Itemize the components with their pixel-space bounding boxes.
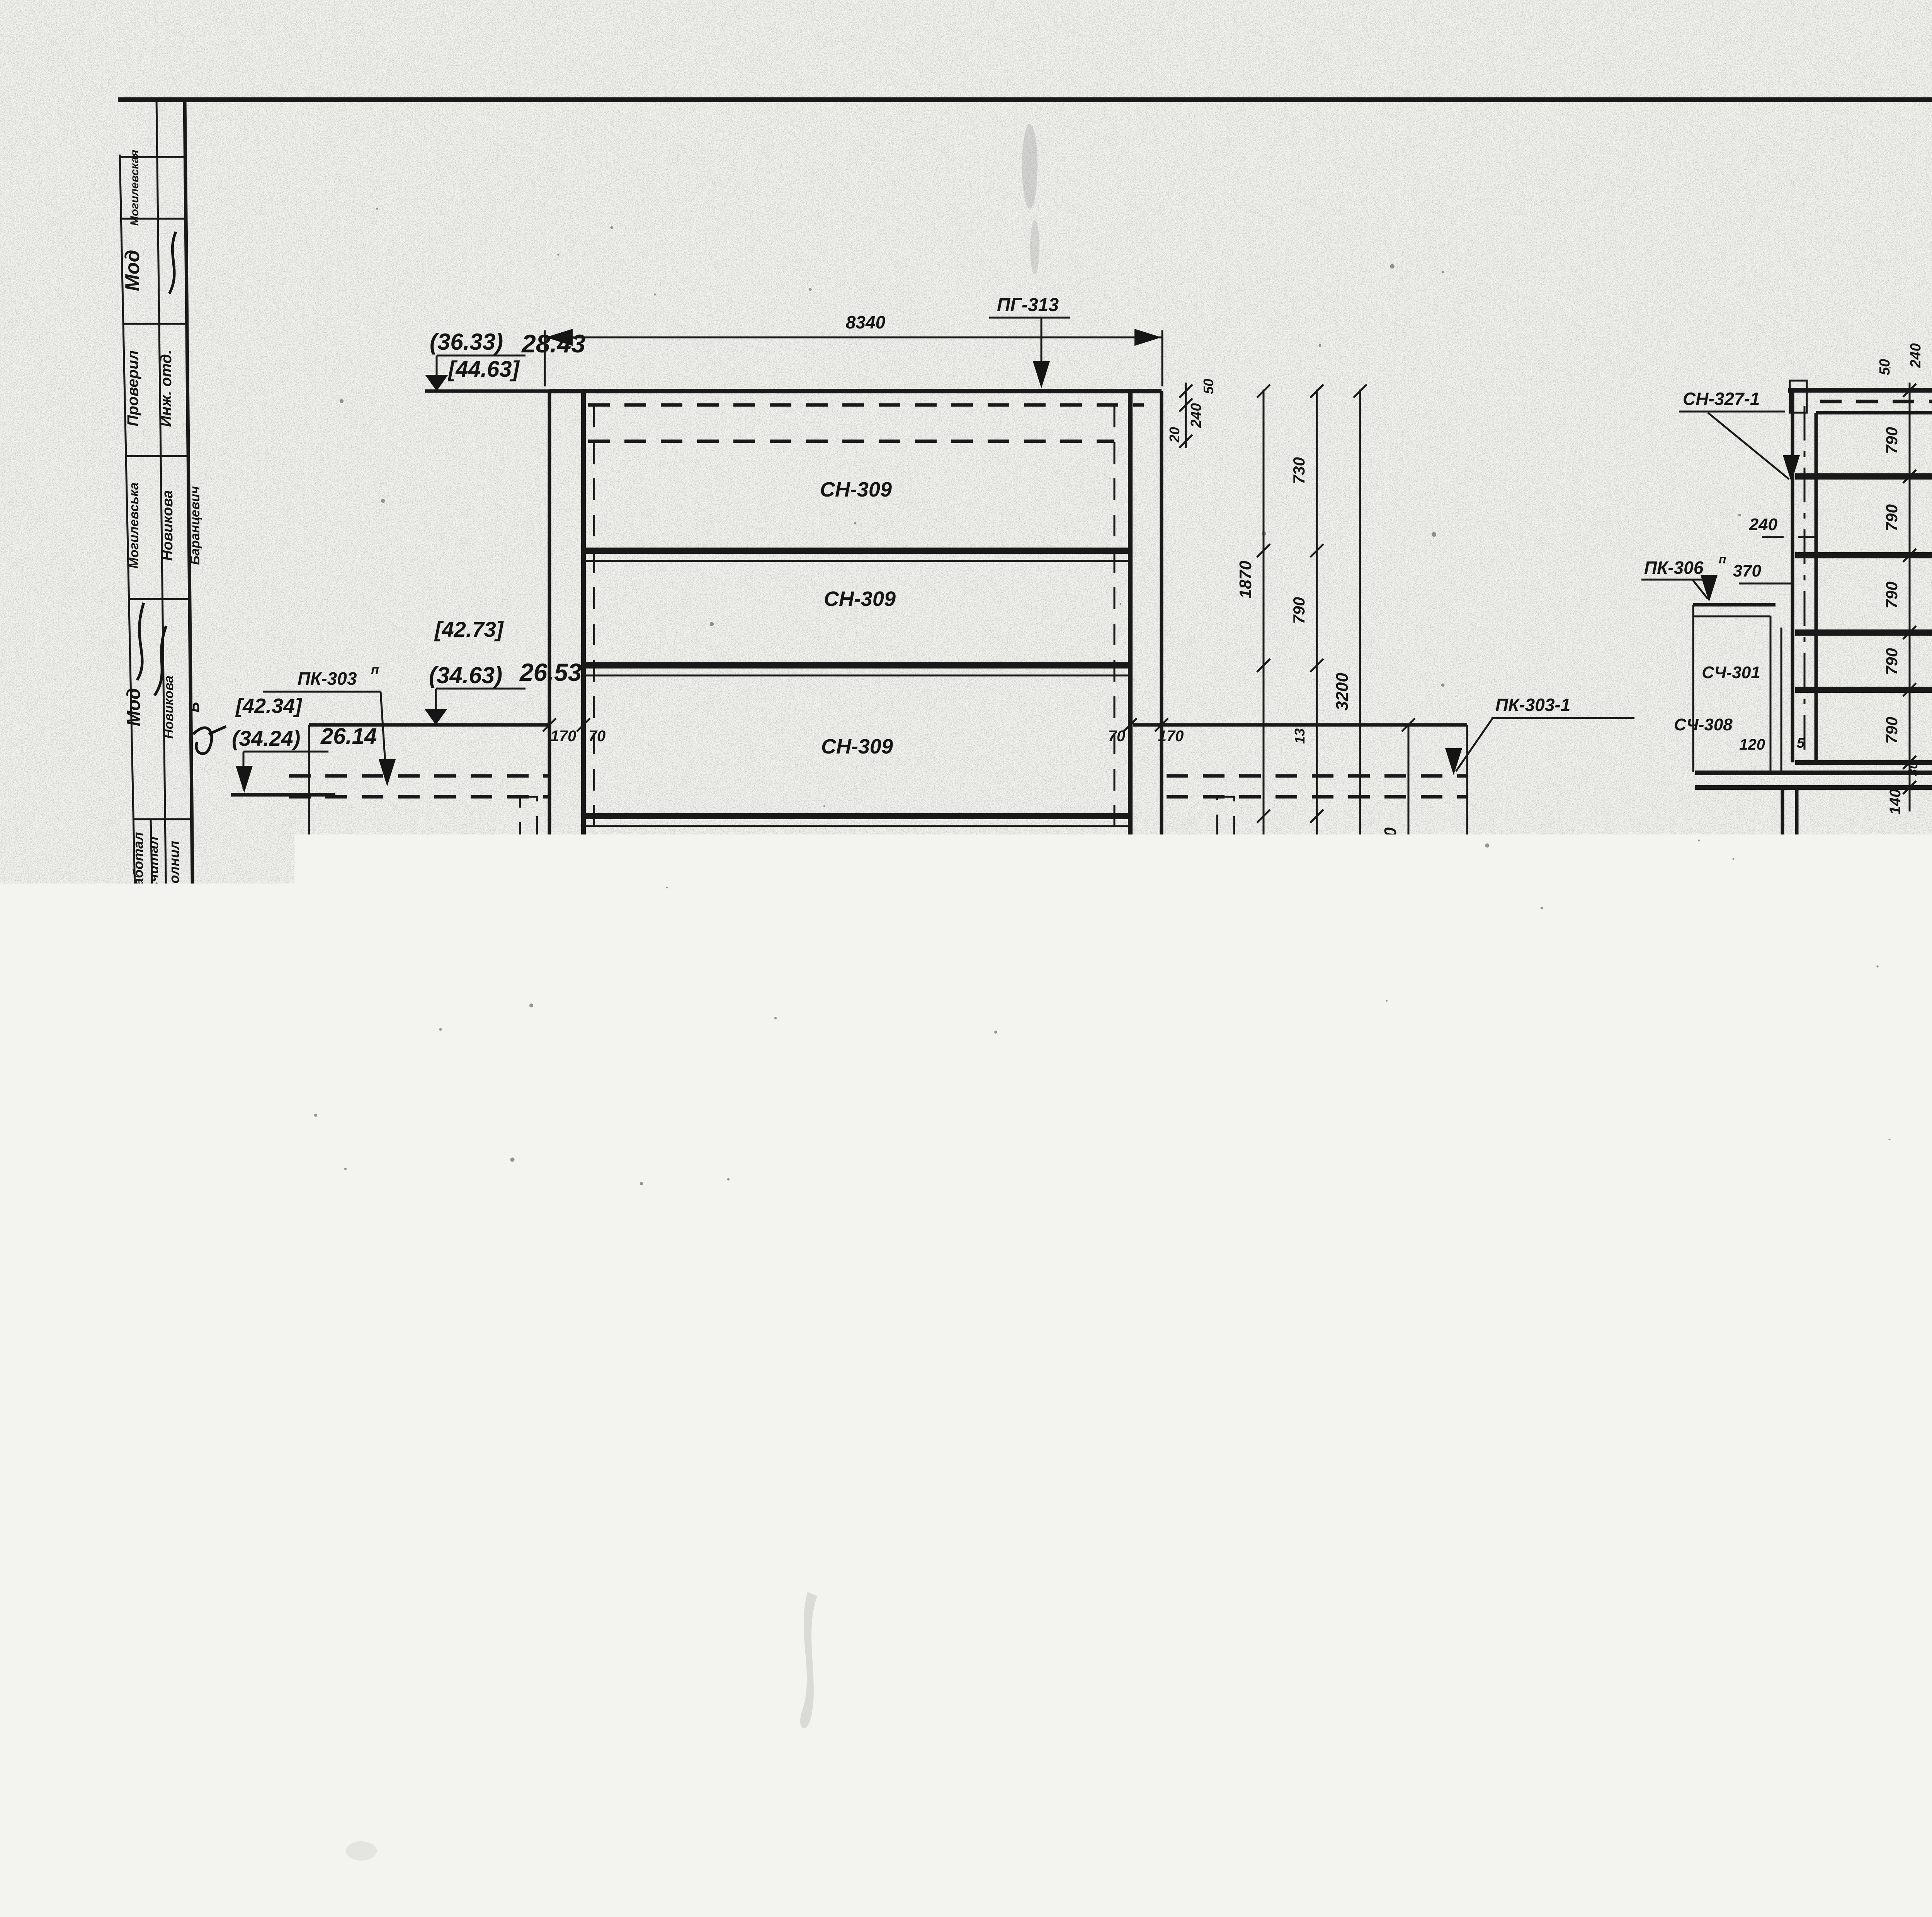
svg-text:(36.33): (36.33) — [430, 329, 503, 355]
svg-text:Разработал: Разработал — [130, 832, 146, 919]
6-6 lower room floor — [572, 1313, 1148, 1345]
svg-text:сн-302: сн-302 — [849, 1255, 917, 1280]
svg-text:СЧ-301: СЧ-301 — [1219, 844, 1281, 864]
svg-text:СН-333: СН-333 — [830, 868, 901, 891]
svg-text:Марочник: Марочник — [153, 1239, 168, 1306]
svg-text:1730: 1730 — [1381, 827, 1400, 865]
left wing panel outline СЧ-301 dashed — [520, 797, 537, 967]
7-7 left wing panel — [1674, 605, 1781, 772]
svg-text:СН-328: СН-328 — [1031, 1115, 1095, 1136]
svg-text:170: 170 — [607, 988, 634, 1007]
svg-text:ПК-303-1: ПК-303-1 — [1495, 695, 1570, 715]
svg-text:СН-309: СН-309 — [821, 735, 893, 758]
svg-text:440: 440 — [1033, 991, 1051, 1019]
svg-text:23.88: 23.88 — [521, 1230, 576, 1254]
6-6 floor slab 3 — [584, 816, 1129, 826]
svg-text:240: 240 — [1749, 515, 1778, 534]
dim 440 near right wall — [1033, 960, 1067, 1050]
svg-text:Гл. констр. ин-та: Гл. констр. ин-та — [159, 1487, 172, 1589]
svg-text:ПК-303: ПК-303 — [298, 668, 357, 689]
vertical dims 1170 130 730 260 lower right — [1467, 959, 1524, 1232]
elevation (36.33)28.43 [44.63] top left — [425, 329, 585, 391]
svg-text:СН-309: СН-309 — [824, 587, 896, 611]
svg-text:СВ-319: СВ-319 — [492, 1305, 553, 1325]
svg-text:(32.24): (32.24) — [232, 1128, 298, 1152]
label СВ-319п with leader — [489, 1256, 586, 1326]
svg-text:Мод: Мод — [121, 250, 144, 291]
7-7 inner vertical dim chain — [1883, 383, 1920, 815]
svg-text:СЧ-308: СЧ-308 — [1674, 715, 1733, 734]
7-7 top rotated dims 50 240 — [1877, 343, 1932, 375]
svg-text:170: 170 — [551, 728, 577, 745]
svg-text:Исполнил: Исполнил — [166, 841, 182, 910]
svg-text:120: 120 — [1739, 736, 1765, 753]
svg-text:(32.90): (32.90) — [430, 990, 498, 1014]
svg-text:(31.98): (31.98) — [439, 1233, 505, 1257]
7-7 floor slabs — [1795, 476, 1932, 690]
svg-text:730: 730 — [1290, 457, 1308, 484]
6-6 sloped machine room floor — [709, 966, 1101, 1181]
svg-text:140: 140 — [1887, 789, 1904, 815]
svg-text:8: 8 — [1779, 948, 1796, 981]
svg-text:Чагин: Чагин — [138, 1251, 154, 1296]
7-7 bottom slab — [1695, 762, 1932, 788]
svg-text:26.53: 26.53 — [519, 658, 582, 686]
svg-text:соответственно для 12-ти – 15: соответственно для 12-ти – 15и этажных т… — [1689, 1606, 1932, 1633]
svg-text:Гл.арх. пр-та: Гл.арх. пр-та — [151, 1104, 165, 1187]
elevation (31.98)23.88 [40.08] — [433, 1221, 576, 1284]
svg-text:СН-327-1: СН-327-1 — [1683, 389, 1760, 409]
svg-text:24.04: 24.04 — [1035, 1140, 1095, 1167]
svg-text:370: 370 — [1733, 561, 1762, 580]
7-7 roof slab — [1788, 381, 1932, 413]
label ПП-312п left — [241, 1182, 393, 1243]
svg-text:СН-309: СН-309 — [336, 1106, 405, 1128]
hoist beam block СЧ-337 — [590, 971, 685, 1182]
dimension 8340 — [545, 312, 1162, 386]
view title 6-6 — [833, 1557, 906, 1587]
svg-text:Шехнер: Шехнер — [172, 1247, 187, 1300]
6-6 grid axis 5 — [1112, 1331, 1161, 1508]
stamp strip signatures — [135, 232, 231, 1708]
svg-text:СЧ-337: СЧ-337 — [604, 1049, 672, 1071]
svg-text:790: 790 — [1481, 1089, 1498, 1114]
svg-text:Гл. констр. АКБ: Гл. констр. АКБ — [175, 1489, 189, 1587]
svg-text:Монтажный чертеж конструкций: Монтажный чертеж конструкций машинного — [1627, 1741, 1932, 1767]
label ПП-312л right — [1463, 1179, 1587, 1233]
svg-text:170: 170 — [1162, 989, 1188, 1006]
elevation note 40.24 / 32.14 24.04 — [815, 1124, 1095, 1183]
svg-text:Гл. инж. ин-та: Гл. инж. ин-та — [145, 1495, 159, 1582]
svg-text:70: 70 — [1108, 728, 1126, 745]
elevation [40.34] (32.24) 24.14 far left — [232, 1099, 321, 1179]
label ПК-303п with leader — [263, 663, 396, 786]
svg-text:1870: 1870 — [1236, 561, 1255, 599]
vertical dim chain 790 series — [1290, 384, 1323, 1113]
svg-text:140: 140 — [552, 1025, 578, 1042]
svg-text:1Лг-600 А: 1Лг-600 А — [1337, 1745, 1569, 1808]
svg-text:2480: 2480 — [514, 988, 564, 1013]
svg-text:Баранцевич: Баранцевич — [188, 486, 202, 565]
svg-text:5: 5 — [1207, 987, 1216, 1003]
svg-text:.5: .5 — [580, 990, 594, 1008]
left stamp strip grid — [120, 100, 202, 1810]
svg-text:6-6: 6-6 — [852, 1557, 887, 1584]
svg-text:[42.34]: [42.34] — [235, 694, 303, 718]
svg-text:790: 790 — [1290, 597, 1308, 624]
6-6 grid axis 7 — [567, 1331, 616, 1508]
bottom dims 70 70 — [556, 1337, 1163, 1391]
svg-text:Проверил: Проверил — [124, 350, 141, 426]
svg-text:(32.77): (32.77) — [437, 1090, 503, 1113]
svg-text:п: п — [371, 663, 379, 677]
svg-text:[42.73]: [42.73] — [434, 617, 504, 641]
svg-text:ПП-312: ПП-312 — [1503, 1213, 1567, 1233]
svg-text:[41.43]: [41.43] — [446, 933, 516, 957]
svg-text:Руководит.отд: Руководит.отд — [138, 1098, 151, 1194]
7-7 left wall — [1793, 390, 1816, 762]
elevation (32.77)24.67 [40.87] — [432, 1078, 575, 1141]
label СЧ-301 with leader (left) — [432, 844, 547, 912]
svg-text:8340: 8340 — [846, 312, 886, 332]
svg-text:70: 70 — [1138, 1350, 1156, 1367]
svg-text:Гл.констр. пр.: Гл.констр. пр. — [171, 1102, 185, 1190]
svg-text:Инж. отд.: Инж. отд. — [158, 350, 175, 427]
svg-text:[44.63]: [44.63] — [447, 357, 520, 382]
svg-text:7: 7 — [583, 1471, 601, 1504]
svg-text:140: 140 — [1187, 1018, 1212, 1034]
svg-text:[40.24]: [40.24] — [815, 1124, 887, 1149]
label СВ-319л with leader — [1136, 1252, 1272, 1311]
svg-text:п: п — [1719, 552, 1726, 566]
vertical dim 3200 — [1333, 384, 1367, 1113]
svg-text:(32.14): (32.14) — [941, 1143, 1012, 1168]
label СЧ-301 with leader (right) — [1172, 844, 1291, 912]
7-7 axis extension lines — [1787, 788, 1932, 935]
svg-text:ПГ-313: ПГ-313 — [997, 295, 1059, 315]
vertical dim 1730 right wing — [1381, 718, 1415, 972]
6-6 floor slab 1 — [584, 551, 1129, 561]
svg-text:28.43: 28.43 — [521, 329, 585, 358]
svg-text:помещения лифта . Разрезы: помещения лифта . Разрезы 6-6 ; 7-7 . — [1627, 1775, 1932, 1801]
6-6 machine room ceiling line — [475, 964, 1132, 967]
svg-text:30: 30 — [1906, 762, 1920, 776]
svg-text:сн-309: сн-309 — [1417, 1091, 1481, 1114]
svg-text:26.14: 26.14 — [320, 724, 377, 749]
svg-text:260: 260 — [1467, 1182, 1483, 1206]
svg-text:СЧ-301: СЧ-301 — [1702, 663, 1760, 682]
svg-text:Рассчитал: Рассчитал — [145, 837, 161, 914]
stamp strip rotated labels — [121, 150, 202, 1589]
svg-text:Новикова: Новикова — [160, 490, 176, 561]
label СН-328п with leader — [1028, 1073, 1135, 1138]
svg-text:ЖИЛЫЕ ДОМА СЕРИИ: ЖИЛЫЕ ДОМА СЕРИИ — [1068, 1779, 1307, 1801]
svg-text:240: 240 — [1908, 343, 1924, 368]
title block frame — [934, 1732, 1932, 1806]
svg-text:130: 130 — [1508, 1001, 1524, 1024]
svg-text:3000: 3000 — [1912, 874, 1932, 895]
svg-text:790: 790 — [1883, 427, 1901, 454]
dims 170 5 140 right wall — [1162, 987, 1216, 1034]
svg-text:ПК-306: ПК-306 — [1644, 558, 1704, 578]
svg-text:СН-309: СН-309 — [820, 478, 892, 501]
svg-text:Мод: Мод — [124, 688, 144, 726]
label ПГ-313 with leader — [989, 295, 1070, 388]
6-6 left wing slab lines — [289, 725, 584, 1225]
svg-text:3000: 3000 — [844, 1389, 884, 1409]
svg-text:70: 70 — [588, 728, 606, 745]
vertical dim chain 1870 — [1236, 384, 1270, 1113]
title text — [1627, 1741, 1932, 1801]
dim labels 170 70 at walls — [543, 718, 1184, 745]
scan speckle dots (decorative) — [239, 208, 1932, 1778]
svg-text:[40.87]: [40.87] — [447, 1118, 514, 1141]
svg-text:СВ-319: СВ-319 — [1194, 1289, 1255, 1309]
svg-text:ЛЕНЗНИИЭП: ЛЕНЗНИИЭП — [113, 1620, 168, 1802]
svg-text:24.14: 24.14 — [247, 1155, 301, 1179]
dimension 3000 3000 bottom 7-7 — [1781, 874, 1932, 907]
note Примечание — [1689, 1505, 1932, 1633]
svg-text:сп-309: сп-309 — [1406, 834, 1469, 857]
svg-text:Матусевич: Матусевич — [148, 960, 163, 1042]
svg-text:Б: Б — [186, 702, 202, 713]
label СН-327-1 left with leader — [1679, 389, 1800, 482]
svg-text:л: л — [1264, 1283, 1272, 1297]
svg-text:13: 13 — [1292, 728, 1308, 744]
svg-text:[40.08]: [40.08] — [448, 1261, 516, 1284]
svg-text:(34.24): (34.24) — [232, 726, 300, 750]
svg-text:Матусевич: Матусевич — [133, 960, 149, 1042]
dim 370 left — [1733, 561, 1793, 583]
svg-text:240: 240 — [1188, 403, 1204, 428]
dims 120 5 / 5 120 — [1739, 735, 1932, 753]
6-6 machine room floor — [590, 1181, 1121, 1186]
dim 240 left / right — [1749, 515, 1932, 537]
svg-text:790: 790 — [1290, 875, 1308, 902]
svg-text:20: 20 — [1167, 427, 1182, 443]
svg-text:790: 790 — [1883, 717, 1901, 744]
svg-text:[41.00]: [41.00] — [453, 1019, 524, 1043]
svg-text:3200: 3200 — [1333, 673, 1352, 711]
7-7 stub columns below — [1770, 788, 1932, 845]
svg-text:790: 790 — [1883, 504, 1901, 531]
svg-text:[40.34]: [40.34] — [234, 1099, 299, 1121]
svg-text:5: 5 — [1797, 735, 1805, 751]
svg-text:Эрнант: Эрнант — [168, 972, 184, 1029]
6-6 shaft right wall — [1114, 391, 1162, 1225]
label ПК-306п with leader — [1641, 552, 1726, 602]
6-6 shaft left wall — [549, 391, 593, 1225]
svg-text:790: 790 — [1883, 648, 1901, 675]
svg-text:24.67: 24.67 — [519, 1086, 575, 1111]
svg-text:170: 170 — [1158, 728, 1184, 745]
6-6 floor slab 2 — [584, 665, 1129, 675]
svg-text:70: 70 — [1106, 1350, 1124, 1367]
svg-text:Могилевская: Могилевская — [128, 150, 141, 226]
series name stencil text — [1068, 1752, 1316, 1801]
dimension 3000 bottom 6-6 — [585, 1389, 1143, 1421]
svg-text:Новикова: Новикова — [162, 675, 176, 739]
elevation (32.90)2480 [41.00] — [424, 988, 634, 1058]
svg-text:Могилевська: Могилевська — [127, 483, 141, 569]
svg-text:ПП-312: ПП-312 — [241, 1222, 305, 1243]
6-6 right wing slab lines — [1133, 725, 1507, 1225]
elevation (33.33)25.23 [41.43] — [424, 901, 576, 974]
svg-text:790: 790 — [1883, 582, 1901, 609]
7-7 grid circle 8 — [1763, 936, 1811, 985]
svg-text:КРУПНОПАНЕЛЬНЫЕ: КРУПНОПАНЕЛЬНЫЕ — [1068, 1752, 1316, 1774]
svg-text:1967: 1967 — [942, 1739, 1039, 1807]
svg-text:Отметки в круглых и квадратны: Отметки в круглых и квадратных скобках д… — [1721, 1563, 1932, 1590]
svg-text:сп-309: сп-309 — [345, 840, 409, 862]
svg-text:5: 5 — [1128, 1471, 1145, 1504]
svg-text:СЧ-301: СЧ-301 — [439, 844, 500, 864]
6-6 lower room walls — [572, 1156, 1148, 1331]
elevation [42.73] (34.63)26.53 — [424, 617, 582, 725]
svg-text:(34.63): (34.63) — [429, 662, 502, 688]
6-6 roof slab — [549, 391, 1162, 441]
svg-text:25.23: 25.23 — [515, 901, 576, 927]
elevation [42.34] (34.24)26.14 left edge — [231, 694, 377, 795]
svg-text:л: л — [1578, 1206, 1587, 1220]
right wing panel outline dashed — [1217, 797, 1234, 963]
svg-text:(33.33): (33.33) — [430, 904, 501, 929]
label ПК-303-1 with leader (right) — [1445, 695, 1634, 775]
scan smudges (decorative) — [346, 124, 1932, 1861]
svg-text:50: 50 — [1201, 379, 1216, 394]
top small dims 50 240 20 — [1167, 379, 1216, 448]
svg-text:п: п — [1106, 1108, 1114, 1123]
svg-text:1170: 1170 — [1481, 992, 1498, 1025]
